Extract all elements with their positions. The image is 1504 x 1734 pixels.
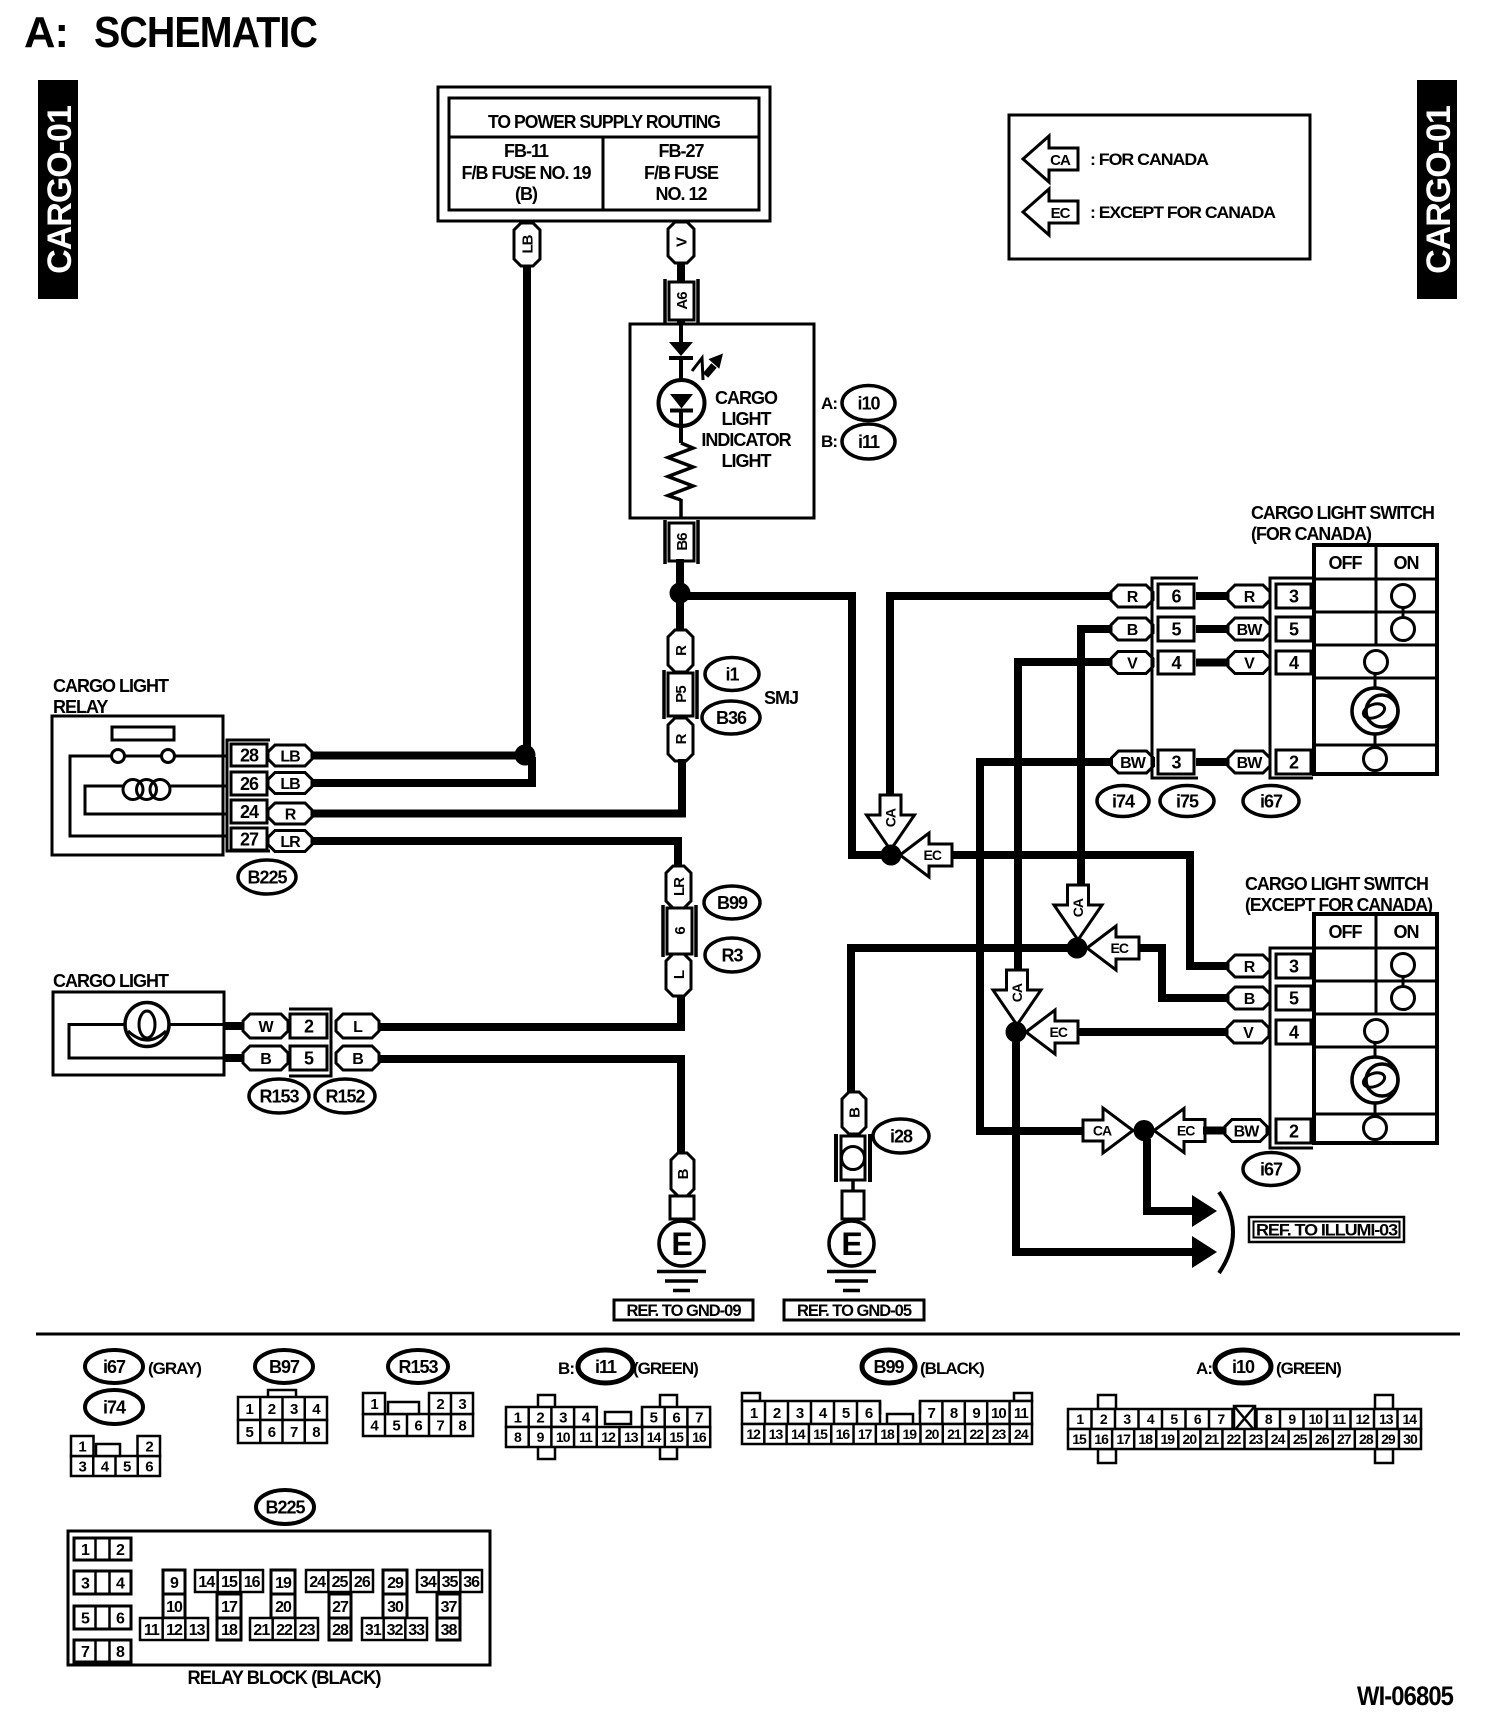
illumi brace: [1219, 1192, 1233, 1273]
arrow EC J1: [900, 833, 952, 877]
svg-text:A:: A:: [1196, 1359, 1212, 1378]
connector i10 pinout: [1068, 1395, 1421, 1463]
svg-text:23: 23: [1249, 1431, 1264, 1447]
svg-text:1: 1: [81, 1542, 90, 1559]
svg-text:B97: B97: [269, 1357, 300, 1377]
i67x pin 2: [1276, 1119, 1311, 1143]
label i74 bottom: [85, 1390, 143, 1424]
svg-text:37: 37: [441, 1599, 458, 1616]
svg-text:9: 9: [972, 1405, 980, 1422]
svg-text:i11: i11: [858, 432, 880, 452]
svg-text:38: 38: [441, 1622, 458, 1639]
svg-text:21: 21: [947, 1426, 962, 1442]
illumi arrow 2: [1192, 1236, 1217, 1268]
LED indicator lamp: [659, 380, 705, 443]
node below B6: [670, 583, 691, 604]
svg-text:(BLACK): (BLACK): [920, 1359, 984, 1378]
svg-text:1: 1: [1076, 1411, 1084, 1427]
ground E gnd05: [827, 1219, 876, 1291]
i67 octagon BW5: [1228, 618, 1270, 640]
cargo light relay box: [52, 716, 223, 855]
svg-text:LB: LB: [519, 234, 536, 253]
svg-text:BW: BW: [1237, 755, 1264, 772]
svg-text:1: 1: [370, 1396, 378, 1413]
svg-text:21: 21: [1205, 1431, 1220, 1447]
svg-text:LIGHT: LIGHT: [722, 451, 772, 471]
i75 pin 5: [1158, 617, 1194, 641]
svg-text:V: V: [1243, 1025, 1254, 1042]
svg-text:REF. TO GND-09: REF. TO GND-09: [626, 1302, 741, 1320]
i67x bracket: [1270, 948, 1313, 1148]
svg-text:16: 16: [836, 1426, 851, 1442]
svg-text:B225: B225: [247, 867, 287, 887]
svg-text:EC: EC: [1111, 940, 1129, 956]
svg-text:L: L: [353, 1019, 363, 1036]
svg-text:10: 10: [556, 1429, 571, 1445]
svg-text:27: 27: [332, 1599, 349, 1616]
i75 pin 3: [1158, 750, 1194, 774]
wire B6 to node: [676, 559, 684, 594]
relay block cluster 34-38: [417, 1570, 482, 1640]
svg-text:2: 2: [436, 1396, 444, 1413]
page banner CARGO-01 right: [1417, 80, 1458, 299]
wire label W: [243, 1014, 288, 1038]
svg-text:LR: LR: [671, 877, 688, 896]
relay block pins 3-4: [74, 1571, 131, 1594]
svg-text:BW: BW: [1237, 622, 1264, 639]
svg-text:6: 6: [414, 1417, 422, 1434]
svg-text:6: 6: [268, 1424, 276, 1441]
i74 octagon V: [1111, 652, 1153, 674]
page banner CARGO-01 left: [38, 80, 79, 299]
svg-text:9: 9: [537, 1429, 545, 1445]
canada switch title: [1251, 503, 1434, 544]
i67 pin 2: [1276, 750, 1311, 774]
svg-text:R: R: [673, 645, 690, 656]
svg-text:22: 22: [1227, 1431, 1242, 1447]
svg-text:FB-27: FB-27: [658, 141, 704, 161]
relay block cluster 24-28: [306, 1570, 373, 1640]
wire L down to cargo light row: [677, 995, 685, 1031]
svg-text:RELAY: RELAY: [53, 697, 108, 717]
svg-text:SMJ: SMJ: [764, 688, 798, 708]
wire label B cargo2: [336, 1046, 379, 1070]
svg-text:B: B: [846, 1107, 863, 1118]
svg-text:B6: B6: [674, 533, 691, 551]
svg-text:B:: B:: [821, 432, 837, 451]
indicator unit label: [701, 388, 791, 471]
wire J3 down to illumi: [1016, 1042, 1192, 1252]
connector A6: [665, 279, 698, 323]
svg-text:OFF: OFF: [1329, 553, 1363, 573]
svg-text:15: 15: [813, 1426, 828, 1442]
label B225 bottom: [256, 1490, 314, 1524]
arrow CA J4: [1083, 1108, 1133, 1153]
svg-text:7: 7: [436, 1417, 444, 1434]
svg-text:3: 3: [78, 1458, 86, 1475]
wire node to J1 branch: [676, 596, 884, 855]
svg-text:26: 26: [240, 774, 259, 794]
arrow EC J3: [1026, 1010, 1078, 1054]
cargo light pin bracket: [289, 1009, 331, 1076]
svg-text:B: B: [1127, 622, 1138, 639]
svg-text:15: 15: [669, 1429, 684, 1445]
resistor R: [668, 443, 693, 518]
svg-text:5: 5: [1170, 1411, 1178, 1427]
svg-text:CA: CA: [1070, 898, 1086, 917]
svg-text:13: 13: [624, 1429, 639, 1445]
i67 pin 4: [1276, 651, 1311, 674]
svg-text:R: R: [1244, 959, 1256, 976]
svg-text:34: 34: [420, 1574, 437, 1591]
gnd09 terminal box: [670, 1196, 694, 1219]
svg-text:W: W: [258, 1019, 274, 1036]
connector pin B i28: [842, 1092, 866, 1134]
svg-text:CA: CA: [1050, 152, 1071, 169]
svg-text:6: 6: [1171, 586, 1181, 606]
label i67 gray: [85, 1350, 201, 1383]
svg-text:CARGO LIGHT SWITCH: CARGO LIGHT SWITCH: [1245, 874, 1428, 894]
svg-text:i10: i10: [857, 393, 880, 413]
cargo light bulb: [125, 1003, 169, 1047]
svg-text:EC: EC: [1177, 1123, 1195, 1139]
fuse FB-27 label: [644, 141, 719, 204]
svg-text:7: 7: [695, 1409, 703, 1426]
svg-text:12: 12: [601, 1429, 616, 1445]
label i28: [873, 1119, 929, 1153]
svg-text:16: 16: [1094, 1431, 1109, 1447]
connector B6: [665, 520, 698, 564]
i67x octagon R: [1228, 955, 1270, 977]
ref to ILLUMI-03 box: [1249, 1217, 1404, 1242]
i67 bracket: [1270, 578, 1313, 778]
svg-text:i11: i11: [595, 1357, 617, 1377]
relay pin 28: [231, 744, 267, 766]
svg-text:11: 11: [579, 1429, 593, 1445]
relay block label: [188, 1668, 382, 1689]
svg-text:(GRAY): (GRAY): [148, 1359, 201, 1378]
label B225 relay: [238, 860, 296, 894]
svg-text:36: 36: [463, 1574, 480, 1591]
svg-text:i28: i28: [890, 1126, 913, 1146]
wire cargo light B stub: [224, 1054, 245, 1062]
svg-text:2: 2: [304, 1016, 314, 1036]
svg-text:4: 4: [1171, 653, 1181, 673]
svg-text:6: 6: [116, 1610, 125, 1627]
label SMJ: [764, 688, 798, 708]
svg-text:BW: BW: [1234, 1123, 1261, 1140]
svg-text:13: 13: [1379, 1411, 1394, 1427]
svg-text:5: 5: [1289, 619, 1299, 639]
svg-text:i1: i1: [725, 664, 739, 684]
relay coil: [123, 780, 170, 800]
cargo light internal wiring: [69, 1025, 224, 1059]
svg-text:18: 18: [880, 1426, 895, 1442]
svg-text:CARGO LIGHT: CARGO LIGHT: [53, 971, 169, 991]
svg-text:19: 19: [903, 1426, 918, 1442]
svg-text:1: 1: [514, 1409, 522, 1426]
svg-text:20: 20: [275, 1599, 292, 1616]
wire J3 to V4 row: [1077, 1028, 1230, 1036]
wire B row to ground: [379, 1059, 681, 1155]
svg-text:8: 8: [1265, 1411, 1273, 1427]
svg-text:R: R: [1244, 589, 1256, 606]
junction dot at relay pin 28: [515, 745, 536, 766]
svg-text:5: 5: [81, 1610, 90, 1627]
fuse FB-11 label: [461, 141, 591, 204]
svg-text:i74: i74: [103, 1397, 126, 1417]
svg-text:15: 15: [221, 1574, 238, 1591]
wire J4 to BW2 row: [1203, 1127, 1230, 1135]
svg-text:B: B: [1244, 991, 1255, 1008]
svg-text:1: 1: [245, 1401, 253, 1418]
svg-text:3: 3: [1123, 1411, 1131, 1427]
svg-text:R: R: [673, 733, 690, 744]
svg-text:8: 8: [116, 1644, 125, 1661]
svg-text:i75: i75: [1176, 791, 1199, 811]
svg-text:2: 2: [1100, 1411, 1108, 1427]
wire label LR pin27: [268, 831, 312, 852]
svg-text:2: 2: [116, 1542, 125, 1559]
exc canada switch title: [1245, 874, 1433, 915]
svg-text:29: 29: [1381, 1431, 1396, 1447]
connector R153 pinout: [363, 1393, 473, 1436]
svg-text:4: 4: [1289, 653, 1299, 673]
relay block pins 5-6: [74, 1606, 131, 1629]
svg-text:B99: B99: [717, 893, 748, 913]
wire i75 to i67 row4: [1196, 659, 1230, 667]
svg-text:2: 2: [1289, 1121, 1299, 1141]
svg-text:B: B: [352, 1051, 363, 1068]
cargo light pin 5: [290, 1046, 327, 1070]
i67x octagon BW: [1225, 1120, 1267, 1142]
svg-text:17: 17: [858, 1426, 873, 1442]
svg-text:OFF: OFF: [1329, 922, 1363, 942]
svg-text:(FOR CANADA): (FOR CANADA): [1251, 524, 1372, 544]
illumi arrow 1: [1192, 1195, 1217, 1227]
wire V4 feed: [1018, 662, 1112, 972]
label B36: [702, 701, 760, 734]
svg-text:CA: CA: [1093, 1123, 1112, 1139]
svg-text:WI-06805: WI-06805: [1357, 1681, 1453, 1711]
svg-text:F/B FUSE: F/B FUSE: [644, 163, 719, 183]
i67 octagon BW2: [1228, 751, 1270, 773]
svg-text:32: 32: [387, 1622, 404, 1639]
svg-text:CARGO-01: CARGO-01: [1420, 106, 1458, 274]
wire i75 to i67 row5: [1196, 625, 1230, 633]
svg-text:REF. TO ILLUMI-03: REF. TO ILLUMI-03: [1256, 1222, 1398, 1240]
svg-text:11: 11: [1014, 1405, 1029, 1422]
svg-text:LB: LB: [280, 748, 300, 765]
wire label LB pin28: [268, 745, 312, 766]
svg-text:A:: A:: [821, 394, 837, 413]
svg-text:5: 5: [245, 1424, 253, 1441]
arrow CA J2: [1054, 885, 1102, 940]
svg-text:CA: CA: [1009, 983, 1025, 1002]
wire BW3 feed: [980, 762, 1112, 1131]
connector pin V: [668, 222, 694, 263]
wire R to relay pin 24 row: [678, 759, 686, 817]
relay block cluster 9-13: [140, 1570, 208, 1640]
legend label FOR CANADA: [1090, 150, 1209, 169]
gnd05 terminal box: [842, 1180, 864, 1219]
ref to GND-09 box: [614, 1300, 753, 1320]
relay block cluster 14-18: [195, 1570, 263, 1640]
i67 pin 3: [1276, 584, 1311, 608]
svg-text:5: 5: [1289, 988, 1299, 1008]
exc canada switch table: [1314, 914, 1437, 1143]
relay pin 27: [231, 828, 267, 850]
svg-text:LR: LR: [280, 834, 301, 851]
svg-text:8: 8: [458, 1417, 466, 1434]
wire i75 to i67 row3: [1196, 758, 1230, 766]
legend label EXCEPT FOR CANADA: [1090, 203, 1276, 222]
svg-text:35: 35: [442, 1574, 459, 1591]
junction J4: [1134, 1120, 1155, 1141]
label A: i10: [821, 386, 895, 421]
relay block box: [68, 1531, 490, 1665]
cargo light box: [53, 992, 224, 1075]
wire pin28 LB: [312, 752, 528, 760]
svg-text:31: 31: [365, 1622, 382, 1639]
svg-text:P5: P5: [673, 686, 690, 703]
svg-text:2: 2: [268, 1401, 276, 1418]
svg-text:R: R: [1127, 589, 1139, 606]
svg-text:B99: B99: [873, 1357, 904, 1377]
svg-text:(GREEN): (GREEN): [633, 1359, 698, 1378]
svg-text:V: V: [673, 237, 690, 247]
svg-text:23: 23: [299, 1622, 316, 1639]
wire label L cargo: [336, 1014, 379, 1038]
svg-text:17: 17: [1116, 1431, 1131, 1447]
svg-text:F/B FUSE NO. 19: F/B FUSE NO. 19: [461, 163, 591, 183]
svg-text:5: 5: [123, 1458, 131, 1475]
svg-text:3: 3: [559, 1409, 567, 1426]
svg-text:20: 20: [925, 1426, 940, 1442]
svg-text:6: 6: [865, 1405, 873, 1422]
label i1: [705, 658, 759, 691]
svg-text:NO. 12: NO. 12: [655, 184, 707, 204]
svg-text:18: 18: [221, 1622, 238, 1639]
label B: i11: [821, 424, 895, 459]
svg-text:9: 9: [1288, 1411, 1296, 1427]
svg-text:28: 28: [1359, 1431, 1374, 1447]
svg-text:23: 23: [992, 1426, 1007, 1442]
svg-text:14: 14: [198, 1574, 215, 1591]
label B: i11 green: [558, 1350, 698, 1383]
svg-text:E: E: [671, 1226, 692, 1262]
wire V to A6: [677, 263, 685, 284]
svg-text:R153: R153: [259, 1086, 299, 1106]
wire label B cargo: [243, 1046, 288, 1070]
svg-text:6: 6: [1194, 1411, 1202, 1427]
svg-text:10: 10: [991, 1405, 1006, 1422]
svg-text:9: 9: [170, 1575, 179, 1592]
svg-text:11: 11: [1332, 1411, 1346, 1427]
svg-text:13: 13: [189, 1622, 206, 1639]
label B99 black: [862, 1350, 984, 1383]
legend box: [1009, 115, 1310, 259]
wire label LB pin26: [268, 773, 312, 794]
wire J1 to R3 row: [952, 855, 1230, 966]
relay block pins 7-8: [74, 1640, 131, 1662]
i67x pin 4: [1276, 1020, 1311, 1044]
i67x pin 3: [1276, 954, 1311, 978]
i74 octagon BW: [1112, 751, 1154, 773]
svg-text:3: 3: [81, 1575, 90, 1592]
svg-text:4: 4: [1147, 1411, 1155, 1427]
i67 pin 5: [1276, 617, 1311, 641]
wire i28 down: [851, 948, 855, 1094]
svg-text:R152: R152: [325, 1086, 365, 1106]
arrow EC J2: [1087, 926, 1139, 970]
wire i75 to i67 row6: [1196, 592, 1230, 600]
svg-text:RELAY BLOCK (BLACK): RELAY BLOCK (BLACK): [188, 1668, 382, 1689]
i75 pin 6: [1158, 584, 1194, 608]
i75 bracket: [1152, 578, 1198, 778]
connector pin R upper: [668, 630, 693, 672]
svg-text:8: 8: [950, 1405, 958, 1422]
label R153: [249, 1079, 309, 1113]
svg-text:CARGO: CARGO: [715, 388, 778, 408]
wire B5 feed: [1081, 629, 1113, 887]
svg-text:19: 19: [275, 1575, 292, 1592]
connector i74/i67 pinout: [71, 1436, 160, 1476]
svg-text:i74: i74: [1112, 791, 1135, 811]
label R153 bottom: [388, 1350, 448, 1383]
svg-text:12: 12: [1355, 1411, 1370, 1427]
svg-text:R3: R3: [721, 945, 743, 965]
svg-text:6: 6: [672, 1409, 680, 1426]
svg-text:2: 2: [145, 1439, 153, 1456]
cargo light label: [53, 971, 169, 991]
svg-text:10: 10: [1308, 1411, 1323, 1427]
connector P5 SMJ: [664, 670, 697, 719]
svg-text:13: 13: [769, 1426, 784, 1442]
svg-text:LB: LB: [280, 776, 300, 793]
relay block cluster 19-23: [250, 1570, 318, 1640]
svg-text:5: 5: [650, 1409, 658, 1426]
svg-text:B36: B36: [716, 708, 747, 728]
label R3: [705, 938, 759, 972]
svg-text:1: 1: [78, 1439, 86, 1456]
svg-text:28: 28: [332, 1622, 349, 1639]
svg-text:14: 14: [1402, 1411, 1417, 1427]
svg-text:29: 29: [387, 1575, 404, 1592]
svg-text:6: 6: [672, 927, 689, 935]
svg-text:7: 7: [928, 1405, 936, 1422]
label B97: [255, 1350, 313, 1383]
svg-text:30: 30: [387, 1599, 404, 1616]
svg-text:i67: i67: [103, 1357, 126, 1377]
svg-text:(GREEN): (GREEN): [1276, 1359, 1341, 1378]
svg-text:27: 27: [1337, 1431, 1352, 1447]
arrow CA J1: [867, 795, 915, 850]
svg-text:A:: A:: [24, 8, 68, 57]
svg-text:(B): (B): [515, 184, 538, 204]
svg-text:5: 5: [304, 1048, 314, 1068]
svg-text:E: E: [841, 1226, 862, 1262]
svg-text:25: 25: [332, 1574, 349, 1591]
i28 bulb connector: [836, 1134, 870, 1182]
i74 octagon B: [1111, 618, 1153, 640]
connector pin LB: [514, 223, 540, 266]
svg-text:14: 14: [791, 1426, 806, 1442]
relay block pins 1-2: [74, 1538, 131, 1560]
relay contacts: [112, 750, 175, 763]
svg-text:25: 25: [1293, 1431, 1308, 1447]
svg-text:26: 26: [354, 1574, 371, 1591]
